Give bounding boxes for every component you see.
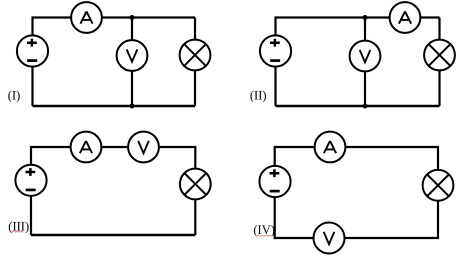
svg-text:(I): (I) [8, 89, 20, 103]
wire: top-right corner down to lamp [438, 18, 440, 40]
wire: voltmeter bottom down to bottom wire [364, 71, 366, 106]
wire: voltmeter bottom down to bottom wire [131, 71, 133, 106]
wire: lamp bottom down to bottom-right corner [194, 70, 196, 106]
spellcheck squiggle under (IV) [256, 235, 272, 236]
wire: battery top up to top-left corner, across to ammeter [31, 147, 71, 165]
voltmeter V (I) [117, 40, 148, 71]
ammeter A (III) [71, 132, 102, 163]
wire: top junction down to voltmeter [131, 18, 133, 41]
wire: bottom wire [33, 105, 196, 108]
battery cell (II) [260, 35, 291, 66]
wire: battery top up to top-left corner, across to ammeter [276, 18, 390, 37]
lamp (II) [424, 40, 455, 71]
battery cell (I) [17, 35, 48, 66]
wire: ammeter right to top-right corner [102, 16, 195, 18]
voltmeter V (IV) [314, 223, 345, 254]
lamp (III) [180, 169, 211, 200]
wire: lamp bottom down to bottom-right corner, across to voltmeter [345, 201, 439, 238]
wire: lamp bottom down to bottom-right corner [438, 70, 440, 106]
wire: battery bottom down to bottom-left corner [30, 195, 32, 235]
wire: bottom wire [276, 105, 440, 108]
voltmeter V (II) [350, 41, 381, 72]
ammeter A (I) [71, 2, 102, 33]
spellcheck squiggle under (III) [12, 231, 24, 232]
junction: top node (I) [130, 15, 135, 20]
svg-text:(II): (II) [250, 88, 267, 102]
battery cell (III) [15, 165, 46, 196]
wire: top junction down to voltmeter [364, 18, 366, 41]
lamp (I) [180, 40, 211, 71]
ammeter A (IV) [315, 132, 346, 163]
wire: ammeter right to top-right corner, down to lamp [345, 147, 438, 170]
wire: voltmeter left to bottom-left corner, up to battery bottom [275, 197, 314, 238]
wire: voltmeter right to top-right corner, down to lamp [159, 147, 196, 169]
junction: bottom node (II) [363, 104, 368, 109]
battery cell (IV) [259, 166, 290, 197]
svg-text:(IV): (IV) [253, 223, 275, 237]
wire: battery top up to top-left corner, across to ammeter [33, 18, 72, 37]
lamp (IV) [423, 170, 454, 201]
wire: ammeter to voltmeter [101, 146, 128, 148]
junction: top node (II) [363, 15, 368, 20]
wire: battery bottom down to bottom-left corner [274, 66, 276, 106]
wire: ammeter right to top-right corner [420, 16, 439, 18]
wire: bottom wire [31, 234, 195, 237]
junction: bottom node (I) [130, 104, 135, 109]
wire: battery bottom down to bottom-left corner [31, 66, 33, 106]
wire: top-right corner down to lamp [194, 18, 196, 40]
ammeter A (II) [390, 2, 421, 33]
wire: lamp bottom down to bottom-right corner [194, 199, 196, 235]
wire: battery top up to top-left corner, across to ammeter [275, 147, 315, 166]
voltmeter V (III) [128, 132, 159, 163]
